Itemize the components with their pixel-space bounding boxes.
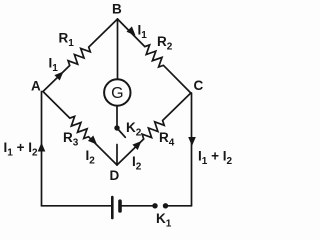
- svg-text:I2: I2: [86, 148, 96, 167]
- galvanometer G: [104, 79, 130, 105]
- resistor R4 arm D-C: [117, 93, 191, 165]
- current arrow I2 on D-C: [132, 141, 141, 150]
- wire right vertical C down: [191, 93, 193, 206]
- wire left vertical A to battery: [41, 92, 43, 206]
- svg-text:G: G: [111, 85, 123, 102]
- key K1 left contact dot: [152, 203, 157, 208]
- battery cell: long plate: [111, 197, 114, 218]
- wire galvanometer to key K2: [116, 106, 118, 128]
- svg-text:D: D: [110, 168, 120, 183]
- svg-text:C: C: [194, 78, 204, 93]
- wire key K1 to right corner: [168, 205, 192, 207]
- current arrow I1 on A-B: [54, 72, 63, 81]
- resistor R3 arm A-D: [43, 92, 117, 166]
- key K2 open lever: [118, 130, 125, 138]
- wire battery to key K1: [122, 205, 153, 207]
- svg-text:R1: R1: [59, 31, 75, 50]
- current arrow I2 on A-D: [88, 136, 97, 145]
- svg-text:I1: I1: [49, 56, 59, 75]
- svg-text:R3: R3: [63, 130, 79, 149]
- svg-text:A: A: [31, 79, 41, 94]
- svg-text:I1: I1: [138, 23, 148, 42]
- wire K2 to D: [116, 145, 118, 166]
- svg-text:I1 + I2: I1 + I2: [4, 140, 38, 159]
- resistor R1 arm A-B: [43, 19, 118, 92]
- svg-text:K2: K2: [126, 120, 142, 139]
- svg-text:I2: I2: [132, 154, 142, 173]
- current arrow I1+I2 down on right wire: [188, 137, 196, 146]
- battery cell: short thick plate: [118, 201, 122, 211]
- wire bottom left to battery: [42, 205, 113, 207]
- wire B to galvanometer: [117, 19, 119, 79]
- current arrow I1+I2 up on left wire: [38, 143, 46, 152]
- resistor R2 arm B-C: [118, 19, 191, 93]
- key K2 junction dot: [114, 125, 119, 130]
- svg-text:B: B: [112, 2, 122, 17]
- svg-text:R4: R4: [159, 130, 175, 149]
- svg-text:K1: K1: [156, 211, 172, 230]
- key K1 right contact dot: [163, 203, 168, 208]
- svg-text:I1 + I2: I1 + I2: [198, 149, 232, 168]
- svg-text:R2: R2: [157, 34, 173, 53]
- current arrow I1 on B-C: [127, 26, 136, 35]
